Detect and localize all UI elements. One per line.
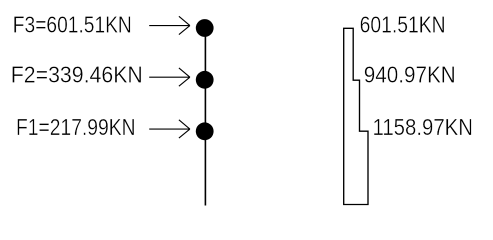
arrow F1 xyxy=(149,120,190,138)
svg-text:601.51KN: 601.51KN xyxy=(360,12,446,38)
svg-text:F3=601.51KN: F3=601.51KN xyxy=(13,12,132,38)
node dot 1 (bottom) xyxy=(196,122,214,140)
arrow F3 xyxy=(149,16,190,34)
node dot 2 (middle) xyxy=(196,71,214,89)
column line xyxy=(204,28,206,206)
shear diagram outline xyxy=(344,28,368,204)
svg-text:940.97KN: 940.97KN xyxy=(364,62,456,88)
arrow F2 xyxy=(149,68,190,86)
svg-text:F2=339.46KN: F2=339.46KN xyxy=(11,62,143,88)
svg-text:1158.97KN: 1158.97KN xyxy=(373,114,474,140)
node dot 3 (top) xyxy=(196,19,214,37)
svg-text:F1=217.99KN: F1=217.99KN xyxy=(16,114,136,140)
